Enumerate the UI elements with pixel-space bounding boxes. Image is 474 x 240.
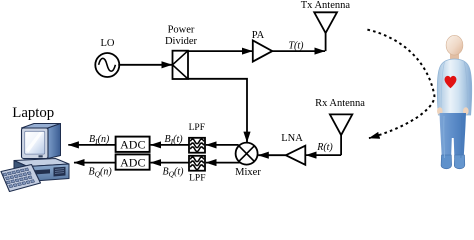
filter LPF Q <box>189 156 205 184</box>
svg-text:Mixer: Mixer <box>235 167 261 178</box>
wire LO to power divider <box>118 64 172 66</box>
amplifier LNA <box>281 133 305 165</box>
svg-text:Rx Antenna: Rx Antenna <box>315 98 365 109</box>
svg-text:Power: Power <box>168 25 195 36</box>
svg-text:Tx Antenna: Tx Antenna <box>301 0 351 11</box>
wire mixer to LPF Q <box>206 162 240 164</box>
svg-text:BI(t): BI(t) <box>165 134 184 146</box>
mixer <box>235 143 261 178</box>
svg-text:Divider: Divider <box>165 36 198 47</box>
wire LNA to mixer <box>258 154 286 156</box>
svg-text:BQ(n): BQ(n) <box>89 166 113 178</box>
svg-text:Laptop: Laptop <box>12 105 54 121</box>
svg-text:ADC: ADC <box>120 138 145 152</box>
svg-text:ADC: ADC <box>120 155 145 169</box>
wire mixer to LPF I <box>206 144 239 146</box>
wire ADC Q to laptop <box>74 162 116 164</box>
amplifier PA <box>252 30 273 61</box>
svg-text:PA: PA <box>252 30 265 41</box>
svg-text:LNA: LNA <box>281 133 303 144</box>
svg-text:T(t): T(t) <box>289 41 305 52</box>
ADC Q <box>116 154 150 169</box>
svg-text:LPF: LPF <box>189 123 205 133</box>
svg-text:LO: LO <box>101 38 115 49</box>
wire power divider to mixer <box>188 79 247 142</box>
svg-text:BQ(t): BQ(t) <box>163 166 185 178</box>
wire ADC I to laptop <box>68 144 115 146</box>
power divider <box>165 25 198 79</box>
wire Rx antenna to LNA <box>306 154 341 156</box>
wire PA to Tx antenna <box>272 50 325 52</box>
Tx antenna <box>301 0 351 51</box>
ADC I <box>116 137 150 152</box>
wire LPF Q to ADC Q <box>151 162 189 164</box>
filter LPF I <box>189 123 205 153</box>
svg-text:LPF: LPF <box>189 173 205 183</box>
Rx antenna <box>315 98 365 155</box>
wire power divider to PA <box>188 50 252 52</box>
svg-text:BI(n): BI(n) <box>89 134 110 146</box>
svg-text:R(t): R(t) <box>316 142 333 153</box>
oscillator LO <box>95 38 119 77</box>
person target with heart <box>437 35 472 169</box>
wire LPF I to ADC I <box>151 144 189 146</box>
dashed propagation path Tx antenna to person to Rx antenna <box>367 30 434 139</box>
laptop computer <box>1 124 69 192</box>
